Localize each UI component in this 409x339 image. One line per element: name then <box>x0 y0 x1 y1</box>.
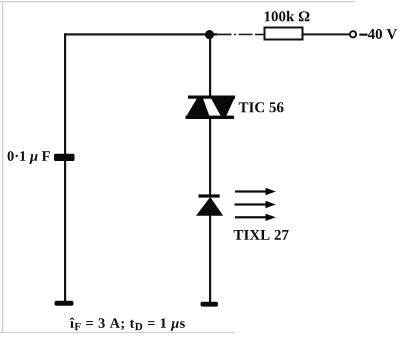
wire: thin scratchy segment between junction and resistor <box>217 34 265 36</box>
thyristor U1: bottom bar <box>186 116 235 119</box>
wire: top horizontal, left segment <box>64 33 217 35</box>
wire: middle vertical, junction to thyristor <box>209 34 211 96</box>
thyristor U1: left triangle (pointing up) <box>187 98 210 115</box>
label: TIXL 27 <box>234 230 289 240</box>
label: 100k Ω <box>265 11 310 22</box>
label: -40 V <box>359 34 367 36</box>
wire: left vertical branch <box>64 33 66 301</box>
wire: top horizontal, segment resistor to terminal <box>302 33 350 35</box>
resistor R 100k <box>265 28 303 40</box>
ground: right terminal bar <box>201 302 219 307</box>
wire: middle vertical, diode to ground <box>209 215 211 302</box>
LED D1 TIXL 27: cathode bar <box>199 194 220 197</box>
annotation: iF = 3 A; tD = 1 us <box>70 318 185 331</box>
ground: left terminal bar <box>55 301 74 306</box>
terminal: -40 V supply <box>350 31 356 37</box>
thyristor U1: right triangle (pointing down) <box>211 98 234 116</box>
LED D1: light emission arrow 1 <box>235 188 276 195</box>
node: junction of top wire and thyristor branch <box>205 30 214 39</box>
LED D1: light emission arrow 2 <box>235 201 276 208</box>
LED D1: triangle (pointing up) <box>196 197 223 216</box>
label: 0.1 uF <box>8 151 50 164</box>
wire: middle vertical, thyristor to diode <box>209 118 211 196</box>
capacitor C 0.1uF (solid bar) <box>54 154 75 161</box>
LED D1: light emission arrow 3 <box>235 214 276 221</box>
thyristor/diac U1 TIC 56: top bar <box>188 96 235 99</box>
label: TIC 56 <box>239 102 284 112</box>
